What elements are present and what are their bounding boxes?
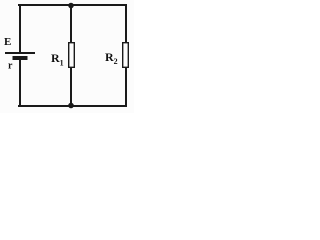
- svg-text:r: r: [8, 61, 13, 72]
- resistor R2: [123, 43, 129, 68]
- wire top: [18, 4, 127, 6]
- battery E (long plate): [5, 52, 35, 54]
- wire middle lower (R1 to bottom): [70, 68, 72, 106]
- wire right upper (top to R2): [125, 4, 127, 42]
- wire bottom: [18, 105, 127, 107]
- node top junction: [68, 3, 74, 9]
- wire left lower (battery to bottom): [19, 60, 21, 107]
- wire right lower (R2 to bottom): [125, 68, 127, 107]
- svg-text:E: E: [4, 36, 11, 48]
- battery E (short thick plate, internal resistance r): [13, 56, 28, 60]
- resistor R1: [69, 43, 75, 68]
- node bottom junction: [68, 103, 74, 109]
- wire middle upper (top to R1): [70, 5, 72, 42]
- wire left upper (battery to top): [19, 4, 21, 53]
